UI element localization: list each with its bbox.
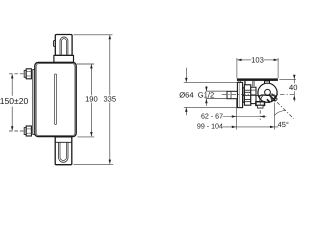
left clamp wedge xyxy=(260,96,263,101)
arrow 335 top xyxy=(109,35,112,39)
arrow 190 top xyxy=(90,64,93,68)
bottom outlet nipple xyxy=(256,102,265,106)
45° spout back edge xyxy=(272,93,278,99)
main horizontal centreline xyxy=(222,94,296,96)
45° spout front edge xyxy=(269,95,275,101)
dim line 150±20 xyxy=(11,74,13,96)
dim line 62-67 xyxy=(223,116,267,118)
spout dark wedge xyxy=(267,99,270,102)
arrow G1/2 bottom xyxy=(205,99,208,103)
body centre groove xyxy=(55,74,57,124)
top connector slot inner xyxy=(61,39,66,55)
svg-text:99 - 104: 99 - 104 xyxy=(197,123,223,131)
outlet vertical centreline xyxy=(259,102,261,120)
top hex nut cap xyxy=(24,70,26,77)
arrow 62-67 at outlet axis xyxy=(260,115,264,118)
arrow 40 bottom xyxy=(293,95,296,99)
dim 103 extension lines xyxy=(236,58,238,78)
arrow 99-104 at wall xyxy=(232,126,236,128)
dim line G1/2 xyxy=(205,86,207,91)
dim line Ø64 xyxy=(185,68,187,83)
arrow Ø64 top xyxy=(185,78,188,82)
arrow G1/2 top xyxy=(205,87,208,91)
top connector tab xyxy=(54,41,56,47)
extension line 99-104 (spout tip) xyxy=(273,103,275,130)
arrow 40 top xyxy=(293,75,296,79)
dim line 335 xyxy=(109,35,111,95)
dim line 103 xyxy=(237,59,251,61)
knob inner circle xyxy=(265,89,271,95)
supply pipe G1/2 xyxy=(227,91,237,98)
G1/2 extension lines over text xyxy=(206,90,227,92)
dim line 99-104 xyxy=(223,126,278,128)
svg-text:103: 103 xyxy=(251,56,264,65)
svg-text:335: 335 xyxy=(103,95,116,104)
body block xyxy=(251,87,256,103)
top connector body xyxy=(55,35,72,56)
extension line for 40 (plate top) xyxy=(279,78,296,80)
arrow 103 left xyxy=(237,59,241,62)
dim line 190 xyxy=(90,64,92,95)
mounting plate (filled bar) xyxy=(237,78,278,81)
svg-text:40: 40 xyxy=(289,83,297,92)
plate stubs xyxy=(239,81,254,86)
top hex nut xyxy=(26,69,31,79)
svg-text:Ø64: Ø64 xyxy=(179,90,193,99)
svg-text:45°: 45° xyxy=(278,120,289,129)
main body outer xyxy=(35,62,76,136)
arrow 150 top xyxy=(11,74,14,78)
top inlet centreline xyxy=(9,73,27,75)
bottom outlet tip xyxy=(257,105,263,108)
svg-text:150±20: 150±20 xyxy=(0,96,29,106)
dim 335 extension lines xyxy=(74,34,113,36)
top connector slot outer xyxy=(60,37,68,55)
arrow Ø64 bottom xyxy=(185,108,188,112)
escutcheon (Ø64 flange) xyxy=(237,82,242,107)
Ø64 extension lines xyxy=(184,81,238,83)
G1/2 extension lines xyxy=(206,90,227,92)
bottom connector slot inner xyxy=(60,142,67,160)
union nut (ribbed) xyxy=(244,85,250,105)
arrow 150 bottom xyxy=(11,126,14,130)
arrow 190 bottom xyxy=(90,132,93,136)
bottom hex nut xyxy=(26,126,31,136)
right clamp wedge xyxy=(271,96,276,102)
45° angle arc xyxy=(274,111,285,116)
bottom hex nut cap xyxy=(24,128,26,135)
bottom inlet centreline xyxy=(9,130,27,132)
bottom connector slot outer xyxy=(59,142,68,162)
back strip behind body left edge xyxy=(33,70,36,135)
retaining ring xyxy=(243,88,245,102)
collar under top connector xyxy=(54,55,74,62)
arrow 62-67 at wall xyxy=(232,115,236,118)
bottom connector body xyxy=(55,137,72,165)
arrow 99-104 at spout tip xyxy=(270,126,274,128)
spout end connect xyxy=(275,99,277,101)
arrow 335 bottom xyxy=(109,160,112,164)
body split line xyxy=(243,95,270,97)
dim line 40 xyxy=(293,75,295,83)
svg-text:G1/2: G1/2 xyxy=(198,90,214,99)
dim 190 extension lines xyxy=(77,63,94,65)
svg-text:190: 190 xyxy=(85,95,98,104)
svg-text:62 - 67: 62 - 67 xyxy=(201,112,223,120)
main body inner outline xyxy=(36,64,75,136)
knob circle xyxy=(258,83,277,102)
knob nub xyxy=(265,81,270,85)
bottom connector collar line xyxy=(55,141,72,143)
wall reference line xyxy=(235,99,237,130)
45° diagonal centreline xyxy=(271,96,294,119)
arrow 103 right xyxy=(274,59,278,62)
